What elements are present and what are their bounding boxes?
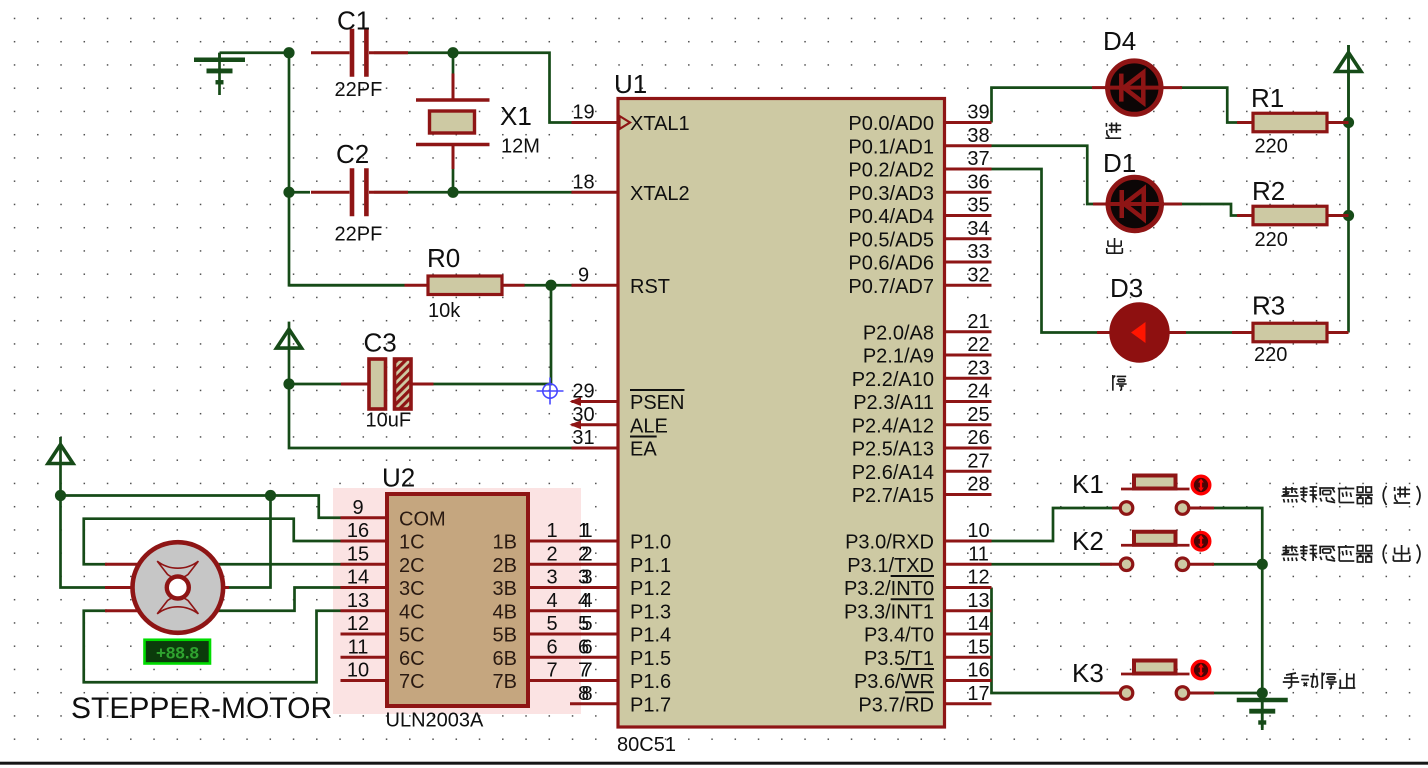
svg-text:P1.3: P1.3 bbox=[630, 601, 671, 623]
svg-text:K3: K3 bbox=[1072, 658, 1104, 688]
wire C2 junction to XTAL2 bbox=[453, 191, 573, 194]
svg-text:10: 10 bbox=[347, 660, 369, 682]
LED D4 label jin bbox=[1105, 123, 1121, 139]
svg-text:P2.2/A10: P2.2/A10 bbox=[852, 369, 934, 391]
wire crystal junction to XTAL1 corner bbox=[453, 53, 573, 123]
svg-text:35: 35 bbox=[967, 195, 989, 217]
svg-text:5: 5 bbox=[581, 613, 592, 635]
svg-text:P1.1: P1.1 bbox=[630, 555, 671, 577]
push button K1 bbox=[1072, 469, 1214, 514]
wire motor rail top bbox=[61, 496, 341, 518]
svg-text:RST: RST bbox=[630, 276, 670, 298]
svg-text:38: 38 bbox=[967, 125, 989, 147]
capacitor C1 bbox=[311, 6, 408, 102]
svg-text:31: 31 bbox=[572, 427, 594, 449]
svg-text:37: 37 bbox=[967, 148, 989, 170]
svg-text:5C: 5C bbox=[399, 625, 425, 647]
U1 left pin names bbox=[620, 113, 690, 716]
svg-text:7C: 7C bbox=[399, 671, 425, 693]
svg-text:P1.6: P1.6 bbox=[630, 671, 671, 693]
svg-text:24: 24 bbox=[967, 381, 989, 403]
svg-text:ULN2003A: ULN2003A bbox=[386, 710, 485, 732]
wire K1 to rail bbox=[1212, 508, 1262, 564]
svg-text:P3.7/RD: P3.7/RD bbox=[858, 694, 934, 716]
svg-text:D1: D1 bbox=[1103, 148, 1136, 178]
U1 left pin stubs and numbers bbox=[570, 102, 619, 705]
svg-text:220: 220 bbox=[1254, 344, 1287, 366]
svg-text:P0.4/AD4: P0.4/AD4 bbox=[848, 206, 934, 228]
svg-text:220: 220 bbox=[1255, 229, 1288, 251]
svg-text:3B: 3B bbox=[493, 578, 517, 600]
LED D4 bbox=[1092, 26, 1182, 114]
junction bbox=[447, 47, 458, 58]
LED D3 label ting bbox=[1113, 375, 1127, 391]
wire D3 to R3 bbox=[1184, 331, 1253, 334]
power flag VCC at stepper rail bbox=[48, 437, 73, 496]
svg-text:2B: 2B bbox=[493, 555, 517, 577]
svg-text:34: 34 bbox=[967, 218, 989, 240]
junction bbox=[55, 490, 66, 501]
svg-text:7: 7 bbox=[581, 660, 592, 682]
svg-text:16: 16 bbox=[347, 520, 369, 542]
svg-text:D4: D4 bbox=[1103, 26, 1136, 56]
svg-text:11: 11 bbox=[968, 543, 989, 565]
svg-text:15: 15 bbox=[347, 543, 369, 565]
wire P3.1 to K2 bbox=[992, 563, 1113, 566]
wire power to C3 left plate bbox=[289, 383, 341, 386]
wire RST junction down to C3 net bbox=[433, 285, 552, 384]
svg-text:6: 6 bbox=[546, 636, 557, 658]
wire C2 left junction bbox=[289, 191, 310, 194]
junction bbox=[283, 47, 294, 58]
junction bbox=[1343, 117, 1354, 128]
svg-text:XTAL1: XTAL1 bbox=[630, 113, 690, 135]
svg-text:U2: U2 bbox=[382, 463, 415, 493]
power flag VCC at C3 bbox=[277, 322, 302, 384]
svg-text:2: 2 bbox=[581, 543, 592, 565]
wire R0 right to RST junction bbox=[524, 284, 573, 287]
wire C2 right to crystal bottom junction bbox=[374, 191, 453, 194]
svg-text:P3.5/T1: P3.5/T1 bbox=[864, 648, 934, 670]
junction bbox=[1257, 559, 1268, 570]
svg-text:P0.2/AD2: P0.2/AD2 bbox=[848, 160, 934, 182]
svg-text:3: 3 bbox=[581, 567, 592, 589]
svg-text:P3.3/INT1: P3.3/INT1 bbox=[844, 601, 934, 623]
wire D4 to R1 bbox=[1180, 88, 1253, 123]
bottom window edge bar bbox=[0, 762, 1428, 765]
svg-text:2: 2 bbox=[546, 543, 557, 565]
wire motor right-bottom to 3C bbox=[217, 588, 341, 611]
driver IC U2 ULN2003A body bbox=[382, 463, 528, 732]
capacitor C2 bbox=[311, 139, 408, 246]
wire P0.2 to D3 bbox=[992, 169, 1098, 333]
wire power rail right bbox=[1347, 45, 1350, 333]
svg-text:6: 6 bbox=[581, 636, 592, 658]
wire crystal top stem bbox=[452, 53, 455, 74]
svg-text:+88.8: +88.8 bbox=[156, 644, 199, 663]
svg-text:PSEN: PSEN bbox=[630, 392, 684, 414]
svg-text:22PF: 22PF bbox=[335, 79, 383, 101]
svg-text:C2: C2 bbox=[336, 139, 369, 169]
svg-text:7: 7 bbox=[546, 660, 557, 682]
svg-text:29: 29 bbox=[572, 381, 594, 403]
svg-text:10: 10 bbox=[967, 520, 989, 542]
svg-text:3C: 3C bbox=[399, 578, 425, 600]
svg-text:C1: C1 bbox=[337, 6, 370, 36]
svg-text:33: 33 bbox=[967, 241, 989, 263]
svg-text:11: 11 bbox=[348, 636, 369, 658]
svg-text:P0.0/AD0: P0.0/AD0 bbox=[848, 113, 934, 135]
label pyro sensor in bbox=[1282, 486, 1420, 505]
ground top-left bbox=[194, 53, 245, 95]
svg-text:1: 1 bbox=[581, 520, 592, 542]
svg-text:13: 13 bbox=[967, 590, 989, 612]
svg-text:R0: R0 bbox=[427, 243, 460, 273]
svg-text:P3.1/TXD: P3.1/TXD bbox=[847, 555, 934, 577]
svg-text:R1: R1 bbox=[1251, 83, 1284, 113]
wire K3 to rail junction bbox=[1212, 692, 1262, 695]
svg-text:P2.3/A11: P2.3/A11 bbox=[853, 392, 934, 414]
svg-text:U1: U1 bbox=[614, 69, 647, 99]
capacitor C3 bbox=[341, 328, 434, 432]
svg-text:14: 14 bbox=[347, 567, 369, 589]
svg-text:P2.6/A14: P2.6/A14 bbox=[852, 462, 934, 484]
LED D1 label chu bbox=[1107, 238, 1123, 253]
push button K2 bbox=[1072, 526, 1214, 571]
svg-text:14: 14 bbox=[967, 613, 989, 635]
svg-text:ALE: ALE bbox=[630, 415, 668, 437]
svg-text:23: 23 bbox=[967, 357, 989, 379]
wire rail left down to motor left-mid bbox=[61, 496, 108, 588]
wire switch rail to ground bbox=[1261, 564, 1264, 728]
op IC U1 80C51 body bbox=[614, 69, 945, 756]
stepper motor M1 bbox=[71, 542, 332, 725]
svg-text:2C: 2C bbox=[399, 555, 425, 577]
svg-text:P1.2: P1.2 bbox=[630, 578, 671, 600]
svg-text:18: 18 bbox=[572, 171, 594, 193]
svg-text:EA: EA bbox=[630, 439, 657, 461]
svg-text:P3.2/INT0: P3.2/INT0 bbox=[844, 578, 934, 600]
wire K2 to rail junction bbox=[1212, 563, 1262, 566]
svg-text:28: 28 bbox=[967, 474, 989, 496]
wire D1 to R2 bbox=[1180, 204, 1253, 216]
LED D1 bbox=[1093, 148, 1182, 231]
junction bbox=[1257, 687, 1268, 698]
wire motor left-bottom to 4C bbox=[84, 611, 341, 683]
U2 selection highlight bbox=[333, 488, 581, 714]
svg-text:30: 30 bbox=[572, 404, 594, 426]
svg-text:P0.1/AD1: P0.1/AD1 bbox=[848, 136, 934, 158]
svg-text:12M: 12M bbox=[501, 136, 540, 158]
svg-text:5B: 5B bbox=[493, 625, 517, 647]
label manual stop bbox=[1283, 673, 1356, 690]
svg-text:3: 3 bbox=[546, 567, 557, 589]
svg-text:XTAL2: XTAL2 bbox=[630, 183, 690, 205]
svg-text:P3.0/RXD: P3.0/RXD bbox=[845, 532, 934, 554]
svg-text:K1: K1 bbox=[1072, 469, 1104, 499]
svg-text:P1.5: P1.5 bbox=[630, 648, 671, 670]
svg-text:21: 21 bbox=[967, 311, 989, 333]
svg-text:26: 26 bbox=[967, 427, 989, 449]
svg-text:P2.5/A13: P2.5/A13 bbox=[852, 439, 934, 461]
origin marker crosshair bbox=[537, 378, 564, 405]
resistor R0 bbox=[405, 243, 525, 322]
wire P0.1 to D1 bbox=[992, 146, 1094, 204]
svg-text:25: 25 bbox=[967, 404, 989, 426]
resistor R3 bbox=[1252, 291, 1349, 367]
U1 right pin names bbox=[844, 113, 934, 716]
svg-text:13: 13 bbox=[347, 590, 369, 612]
push button K3 bbox=[1072, 658, 1214, 699]
svg-text:P1.4: P1.4 bbox=[630, 625, 671, 647]
svg-text:6C: 6C bbox=[399, 648, 425, 670]
junction bbox=[447, 187, 458, 198]
svg-text:1B: 1B bbox=[493, 532, 517, 554]
svg-text:16: 16 bbox=[967, 660, 989, 682]
svg-text:10k: 10k bbox=[428, 300, 461, 322]
svg-text:220: 220 bbox=[1255, 136, 1288, 158]
svg-text:12: 12 bbox=[347, 613, 369, 635]
svg-text:10uF: 10uF bbox=[366, 410, 412, 432]
svg-text:7B: 7B bbox=[493, 671, 517, 693]
wire P0.0 to D4 bbox=[992, 88, 1093, 123]
svg-text:1: 1 bbox=[546, 520, 557, 542]
svg-text:X1: X1 bbox=[500, 101, 532, 131]
resistor R1 bbox=[1237, 83, 1349, 158]
svg-text:22: 22 bbox=[967, 334, 989, 356]
svg-text:17: 17 bbox=[967, 683, 989, 705]
wire P3.0 to K1 bbox=[992, 508, 1113, 541]
svg-text:P0.5/AD5: P0.5/AD5 bbox=[848, 229, 934, 251]
wire P3.2 to K3 bbox=[992, 588, 1113, 694]
svg-text:P2.7/A15: P2.7/A15 bbox=[852, 485, 934, 507]
svg-text:P1.0: P1.0 bbox=[630, 532, 671, 554]
junction bbox=[265, 490, 276, 501]
junction bbox=[1343, 210, 1354, 221]
svg-text:R2: R2 bbox=[1252, 176, 1285, 206]
wire C3 junction down to EA bbox=[289, 384, 573, 448]
svg-text:P3.4/T0: P3.4/T0 bbox=[864, 625, 934, 647]
svg-text:19: 19 bbox=[572, 102, 594, 124]
svg-text:80C51: 80C51 bbox=[617, 734, 676, 756]
svg-text:4B: 4B bbox=[493, 601, 517, 623]
svg-text:P2.0/A8: P2.0/A8 bbox=[863, 322, 934, 344]
svg-text:1C: 1C bbox=[399, 532, 425, 554]
svg-text:39: 39 bbox=[967, 102, 989, 124]
svg-text:P2.4/A12: P2.4/A12 bbox=[852, 415, 934, 437]
junction bbox=[283, 378, 294, 389]
svg-text:R3: R3 bbox=[1252, 291, 1285, 321]
svg-text:C3: C3 bbox=[364, 328, 397, 358]
svg-text:P0.3/AD3: P0.3/AD3 bbox=[848, 183, 934, 205]
junction bbox=[545, 280, 556, 291]
wire C1 junction down to R0 row bbox=[289, 53, 405, 286]
svg-text:P1.7: P1.7 bbox=[630, 694, 671, 716]
svg-text:12: 12 bbox=[967, 567, 989, 589]
U2 left pin stubs and numbers bbox=[341, 497, 388, 682]
wire rail junction down to motor right-mid bbox=[228, 496, 271, 588]
motor speed readout LCD bbox=[145, 640, 211, 664]
svg-text:4C: 4C bbox=[399, 601, 425, 623]
svg-text:P0.7/AD7: P0.7/AD7 bbox=[848, 276, 934, 298]
U2 pin names bbox=[399, 508, 517, 693]
svg-text:8: 8 bbox=[581, 683, 592, 705]
label pyro sensor out bbox=[1282, 545, 1420, 564]
wire motor left-top to 1C bbox=[84, 519, 341, 565]
svg-text:15: 15 bbox=[967, 636, 989, 658]
svg-text:27: 27 bbox=[967, 450, 989, 472]
resistor R2 bbox=[1237, 176, 1349, 251]
svg-text:5: 5 bbox=[546, 613, 557, 635]
wire C1 right to crystal junction bbox=[374, 51, 453, 54]
U1 right pin stubs and numbers bbox=[945, 102, 992, 705]
svg-text:36: 36 bbox=[967, 171, 989, 193]
wire motor right-top to 2C bbox=[217, 563, 341, 566]
crystal X1 bbox=[416, 74, 540, 170]
svg-text:4: 4 bbox=[581, 590, 592, 612]
svg-text:D3: D3 bbox=[1110, 273, 1143, 303]
wire GND to C1/C2 junction bbox=[220, 51, 290, 54]
LED D3 lit bbox=[1097, 273, 1253, 362]
svg-text:P2.1/A9: P2.1/A9 bbox=[863, 346, 934, 368]
svg-text:6B: 6B bbox=[493, 648, 517, 670]
wire crystal bottom stem bbox=[452, 169, 455, 193]
svg-text:K2: K2 bbox=[1072, 526, 1104, 556]
svg-text:STEPPER-MOTOR: STEPPER-MOTOR bbox=[71, 692, 332, 725]
svg-text:9: 9 bbox=[352, 497, 363, 519]
svg-text:4: 4 bbox=[546, 590, 557, 612]
power flag VCC at resistor rail bbox=[1336, 45, 1361, 123]
svg-text:P0.6/AD6: P0.6/AD6 bbox=[848, 253, 934, 275]
ground bottom-right bbox=[1237, 693, 1288, 730]
wire R0 left lead wire bbox=[289, 284, 405, 287]
svg-text:9: 9 bbox=[578, 264, 589, 286]
U2 right stubs joining U1 P1.x with pin numbers bbox=[528, 520, 618, 705]
junction bbox=[283, 187, 294, 198]
svg-text:COM: COM bbox=[399, 508, 446, 530]
svg-text:22PF: 22PF bbox=[335, 224, 383, 246]
svg-text:32: 32 bbox=[967, 264, 989, 286]
svg-text:P3.6/WR: P3.6/WR bbox=[854, 671, 934, 693]
